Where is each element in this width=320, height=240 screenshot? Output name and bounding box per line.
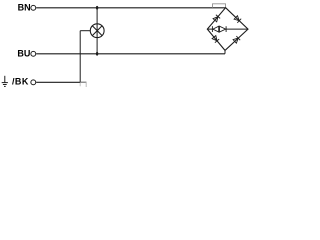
svg-text:BU: BU [17,49,30,59]
svg-text:/BK: /BK [12,77,29,87]
svg-text:BN: BN [18,3,31,13]
